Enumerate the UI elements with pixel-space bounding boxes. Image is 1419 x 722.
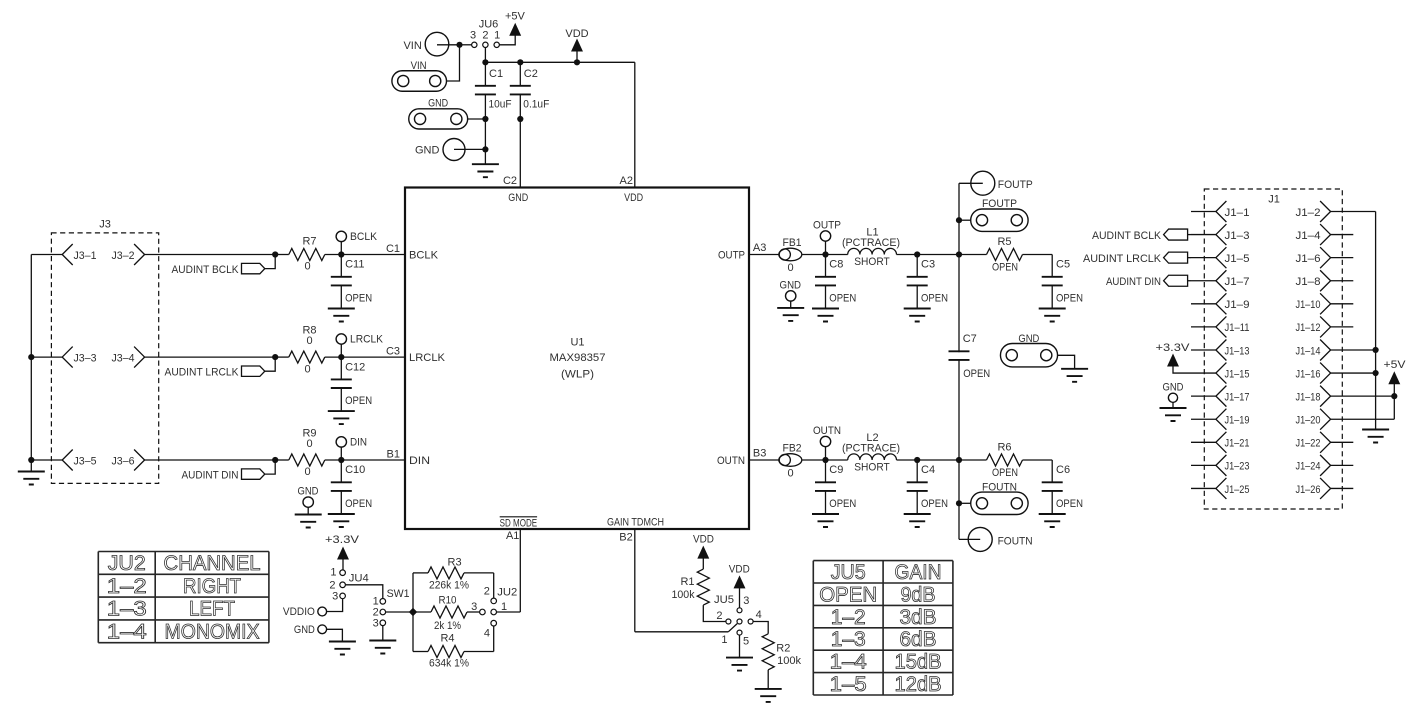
svg-text:5: 5 [743,636,749,648]
svg-text:FB1: FB1 [783,237,802,249]
svg-text:A3: A3 [753,242,766,254]
wire to pin C1 [341,243,405,255]
node [272,457,278,463]
capacitor C9 [812,460,856,527]
svg-text:J1–22: J1–22 [1296,438,1321,450]
svg-text:A1: A1 [506,530,519,542]
resistor R6 [959,441,1052,479]
node [338,354,344,360]
svg-text:2: 2 [484,585,490,597]
svg-text:VDDIO: VDDIO [283,606,315,618]
capacitor C12 [328,357,372,424]
svg-text:LRCLK: LRCLK [409,352,446,364]
test point FOUTP [959,171,1033,195]
svg-text:J1–3: J1–3 [1225,230,1250,242]
svg-text:BCLK: BCLK [350,231,378,243]
wire to pin C2 [503,119,520,188]
ground [369,641,396,654]
svg-text:AUDINT LRCLK: AUDINT LRCLK [165,367,240,379]
svg-text:J1–9: J1–9 [1225,299,1250,311]
node [956,457,962,463]
resistor R10 [413,594,480,632]
svg-text:2k 1%: 2k 1% [434,620,461,632]
pin J3-5 [62,450,96,471]
node VIN junction [456,42,462,48]
svg-text:C11: C11 [345,259,364,271]
node [482,119,488,164]
svg-text:C4: C4 [921,464,935,476]
wire [802,459,826,461]
wire [1375,212,1377,430]
svg-text:JU2: JU2 [108,552,146,575]
test point LRCLK [336,334,384,358]
svg-text:GND: GND [780,280,802,292]
inductor L1 [826,227,918,269]
power +3.3V [325,534,360,570]
capacitor C3 [904,255,948,322]
svg-text:1–3: 1–3 [831,628,866,651]
pin J1-24 [1296,455,1354,476]
IC U1 MAX98357 [405,188,749,530]
svg-text:AUDINT DIN: AUDINT DIN [182,470,239,482]
node [272,251,278,257]
svg-text:2: 2 [482,30,488,42]
wire [917,254,959,256]
svg-text:OPEN: OPEN [345,498,372,510]
pad VIN [392,60,447,91]
test point OUTN [813,425,841,460]
connector J3 [51,219,158,484]
ground [1061,369,1088,382]
svg-text:VDD: VDD [693,533,714,545]
node VDD rail [482,59,635,65]
svg-text:LRCLK: LRCLK [350,334,384,346]
capacitor C5 [1039,255,1083,322]
svg-text:3: 3 [332,591,338,603]
inductor L2 [826,432,918,474]
node [914,457,920,463]
svg-text:FOUTP: FOUTP [982,198,1017,210]
wire to pin B1 [341,449,405,461]
test point BCLK [336,231,378,255]
wire [460,44,472,46]
svg-text:GND: GND [1163,381,1184,393]
svg-text:GAIN: GAIN [895,561,942,584]
net flag AUDINT DIN [1106,275,1191,288]
pin J1-13 [1191,339,1250,360]
svg-text:J3–1: J3–1 [74,250,97,262]
svg-text:OPEN: OPEN [1056,292,1083,304]
wire to pin C3 [341,346,405,358]
svg-text:OPEN: OPEN [992,261,1018,273]
test point VDDIO [283,599,343,618]
svg-text:3: 3 [743,595,749,607]
svg-text:OPEN: OPEN [921,292,948,304]
svg-text:OUTP: OUTP [813,219,841,231]
svg-text:MONOMIX: MONOMIX [165,621,260,644]
wire [917,459,959,461]
node [1391,393,1397,399]
connector J1 [1204,189,1342,509]
power +3.3V [1156,342,1192,373]
svg-text:A2: A2 [620,175,633,187]
svg-text:J1–4: J1–4 [1296,230,1321,242]
svg-text:SHORT: SHORT [854,256,890,268]
svg-text:J1–1: J1–1 [1225,207,1250,219]
svg-text:GND: GND [298,486,319,498]
wire [468,118,486,120]
pin J1-20 [1296,409,1395,430]
wire [145,459,276,461]
pin J1-10 [1296,293,1354,314]
svg-text:J1–5: J1–5 [1225,253,1250,265]
svg-text:OPEN: OPEN [345,292,372,304]
svg-text:J1–7: J1–7 [1225,276,1250,288]
ground [329,642,356,655]
pin J1-26 [1296,478,1354,499]
pin J1-8 [1296,270,1354,291]
svg-text:10uF: 10uF [489,98,512,110]
node [822,251,828,257]
svg-text:J1–24: J1–24 [1296,461,1321,473]
node [338,251,344,257]
svg-text:J3: J3 [99,219,111,231]
net flag AUDINT BCLK [172,255,276,277]
net flag AUDINT DIN [182,460,276,482]
svg-text:J1–15: J1–15 [1225,368,1250,380]
svg-text:J1: J1 [1268,193,1280,205]
capacitor C6 [1039,460,1083,527]
ferrite bead FB1 [779,237,802,274]
wire to pin A1 [497,529,521,612]
svg-text:12dB: 12dB [895,673,942,696]
wire [802,254,826,256]
resistor R3 [413,556,494,591]
capacitor C10 [328,460,372,527]
svg-text:GND: GND [428,98,448,110]
wire [145,254,276,256]
pin J1-25 [1191,478,1250,499]
svg-text:DIN: DIN [409,455,430,467]
svg-text:GND: GND [1018,333,1039,345]
svg-text:U1: U1 [570,337,584,349]
svg-text:C8: C8 [829,259,843,271]
svg-text:AUDINT DIN: AUDINT DIN [1106,276,1161,288]
capacitor C4 [904,460,948,527]
pin J3-1 [62,244,96,265]
test point VIN [403,32,459,56]
svg-text:+5V: +5V [505,11,526,23]
jumper JU6 [470,19,500,48]
svg-text:0: 0 [304,466,310,478]
net flag AUDINT LRCLK [1083,252,1191,265]
test point GND [777,280,804,321]
svg-text:FOUTP: FOUTP [998,179,1033,191]
svg-text:J1–21: J1–21 [1225,438,1250,450]
capacitor C8 [812,255,856,322]
node [1373,347,1379,376]
pin J1-11 [1191,316,1250,337]
ground [755,689,782,702]
svg-text:LEFT: LEFT [189,598,235,621]
pin J1-4 [1296,224,1354,245]
svg-text:J1–19: J1–19 [1225,415,1250,427]
pad FOUTN [959,481,1028,514]
resistor R8 [275,325,341,376]
svg-text:RIGHT: RIGHT [183,575,241,598]
svg-text:J1–12: J1–12 [1296,322,1321,334]
node [409,608,417,616]
svg-text:100k: 100k [777,655,801,667]
svg-text:BCLK: BCLK [409,250,439,262]
pin J1-19 [1191,409,1250,430]
svg-text:C1: C1 [386,243,400,255]
svg-text:J1–8: J1–8 [1296,276,1321,288]
svg-text:B3: B3 [753,448,766,460]
net flag AUDINT LRCLK [165,357,276,379]
wire rail [958,183,960,539]
svg-text:0: 0 [787,468,793,480]
svg-text:634k 1%: 634k 1% [429,658,469,670]
svg-text:SD MODE: SD MODE [500,518,538,530]
svg-text:OPEN: OPEN [963,368,990,380]
wire rail [412,573,414,652]
svg-text:J1–14: J1–14 [1296,345,1321,357]
pad GND [1000,333,1074,369]
svg-text:SHORT: SHORT [854,462,890,474]
svg-text:C1: C1 [489,68,503,80]
resistor R9 [275,428,341,479]
svg-text:(WLP): (WLP) [561,369,594,381]
svg-text:(PCTRACE): (PCTRACE) [842,442,900,454]
resistor R2 [753,622,801,689]
svg-text:+3.3V: +3.3V [325,534,360,546]
svg-text:0.1uF: 0.1uF [523,98,549,110]
svg-text:OPEN: OPEN [829,498,856,510]
svg-text:R5: R5 [997,236,1011,248]
capacitor C2 [510,62,550,119]
svg-text:AUDINT LRCLK: AUDINT LRCLK [1083,253,1162,265]
wire from pin B2 [619,529,737,632]
svg-text:4: 4 [484,627,490,639]
svg-text:JU4: JU4 [349,573,369,585]
pin J1-5 [1191,247,1250,268]
svg-text:R10: R10 [439,594,457,606]
svg-text:6dB: 6dB [900,628,937,651]
wire [382,626,384,641]
ground [1362,430,1389,443]
pin J1-7 [1191,270,1250,291]
svg-text:(PCTRACE): (PCTRACE) [842,237,900,249]
pin J1-23 [1191,455,1250,476]
svg-text:J1–11: J1–11 [1225,322,1250,334]
svg-text:C10: C10 [345,464,365,476]
net flag AUDINT BCLK [1092,229,1191,242]
jumper JU5 [714,594,762,648]
node [482,116,523,122]
svg-text:0: 0 [306,438,312,450]
svg-text:JU5: JU5 [714,594,734,606]
pin J1-9 [1191,293,1250,314]
svg-text:100k: 100k [672,589,695,601]
resistor R5 [959,236,1052,273]
switch SW1 [373,588,410,629]
svg-text:+3.3V: +3.3V [1156,342,1191,354]
pin J1-17 [1191,386,1250,407]
power VDD [729,563,750,608]
svg-text:J1–6: J1–6 [1296,253,1321,265]
test point GND [415,139,485,161]
node [956,251,962,257]
pad FOUTP [959,198,1028,231]
svg-text:AUDINT BCLK: AUDINT BCLK [1092,230,1162,242]
svg-text:R2: R2 [776,643,790,655]
svg-text:+5V: +5V [1384,359,1407,371]
wire [484,48,486,63]
svg-text:AUDINT BCLK: AUDINT BCLK [172,264,240,276]
pin J3-3 [62,347,96,368]
test point GND [1160,381,1187,421]
pin J3-2 [112,244,145,265]
pin J1-18 [1296,386,1395,407]
svg-text:9dB: 9dB [901,583,936,606]
svg-text:1: 1 [721,634,727,646]
test point FOUTN [959,527,1033,551]
pin J1-2 [1296,201,1376,222]
svg-text:1: 1 [494,30,500,42]
ground [472,164,499,177]
jumper JU4 [329,567,368,603]
pin J1-16 [1296,363,1376,384]
ferrite bead FB2 [779,442,802,479]
svg-text:GND: GND [508,192,528,204]
svg-text:GAIN TDMCH: GAIN TDMCH [607,516,664,528]
svg-text:OPEN: OPEN [1056,498,1083,510]
svg-text:0: 0 [787,262,793,274]
svg-text:1–5: 1–5 [830,673,867,696]
svg-text:4: 4 [756,609,762,621]
svg-text:J1–10: J1–10 [1296,299,1321,311]
pin J1-3 [1191,224,1250,245]
ground [18,472,45,485]
svg-text:GND: GND [415,144,440,156]
svg-text:OPEN: OPEN [819,583,877,606]
pin J1-15 [1191,363,1250,384]
test point GND [295,486,322,528]
table JU2 CHANNEL [98,552,269,644]
pin J1-6 [1296,247,1354,268]
svg-text:J3–2: J3–2 [112,250,135,262]
svg-text:OPEN: OPEN [992,467,1018,479]
pin J1-14 [1296,339,1376,360]
capacitor C1 [475,62,512,119]
svg-text:J1–16: J1–16 [1296,368,1321,380]
capacitor C7 [949,333,991,380]
wire [145,356,276,358]
pad GND [409,98,468,130]
table JU5 GAIN [813,561,953,696]
svg-text:VDD: VDD [729,563,750,575]
svg-text:1–4: 1–4 [107,621,147,644]
svg-text:1: 1 [330,567,336,579]
svg-text:C6: C6 [1056,464,1070,476]
jumper JU2 [471,573,517,652]
test point GND [294,624,343,642]
svg-text:1–3: 1–3 [107,598,147,621]
wire [739,635,741,657]
node [272,354,278,360]
svg-text:C12: C12 [345,361,365,373]
svg-text:1–2: 1–2 [107,575,147,598]
wire from pin A3 [749,242,779,255]
node [956,500,962,506]
test point DIN [336,436,367,460]
svg-text:C2: C2 [524,68,538,80]
svg-text:15dB: 15dB [895,651,942,674]
svg-text:J1–20: J1–20 [1296,415,1321,427]
svg-text:VDD: VDD [624,192,643,204]
svg-text:VDD: VDD [565,28,588,40]
wire [346,585,383,599]
wire [1393,396,1395,419]
svg-text:B2: B2 [619,532,632,544]
svg-text:B1: B1 [387,449,400,461]
resistor R4 [413,632,494,669]
svg-text:3dB: 3dB [900,606,937,629]
svg-text:SW1: SW1 [387,588,410,600]
svg-text:OPEN: OPEN [921,498,948,510]
power +5V [499,11,525,45]
svg-text:C3: C3 [921,259,935,271]
test point OUTP [813,219,841,254]
svg-text:0: 0 [306,335,312,347]
ground [726,658,753,671]
svg-text:3: 3 [470,30,476,42]
pin J1-12 [1296,316,1354,337]
svg-text:1–2: 1–2 [831,606,866,629]
svg-text:0: 0 [304,261,310,273]
svg-text:MAX98357: MAX98357 [550,352,606,364]
svg-text:OPEN: OPEN [829,292,856,304]
svg-text:FOUTN: FOUTN [982,481,1017,493]
svg-text:C9: C9 [829,464,843,476]
node [338,457,344,463]
svg-text:2: 2 [716,610,722,622]
wire [386,611,410,613]
svg-text:JU5: JU5 [831,561,866,584]
svg-text:C7: C7 [963,333,977,345]
svg-text:J3–5: J3–5 [74,455,97,467]
svg-text:OPEN: OPEN [345,395,372,407]
svg-text:J1–2: J1–2 [1296,207,1321,219]
svg-text:J1–17: J1–17 [1225,391,1250,403]
wire to pin A2 [620,62,635,187]
svg-text:3: 3 [471,601,477,613]
svg-text:J1–25: J1–25 [1225,484,1250,496]
pin J1-21 [1191,432,1250,453]
svg-text:C2: C2 [503,175,517,187]
wire [447,45,460,81]
svg-text:J3–6: J3–6 [112,455,135,467]
svg-text:JU2: JU2 [497,586,517,598]
svg-text:226k 1%: 226k 1% [429,579,469,591]
pin J3-6 [112,450,145,471]
svg-text:J1–18: J1–18 [1296,391,1321,403]
svg-text:0: 0 [304,363,310,375]
svg-text:R7: R7 [302,235,316,247]
node [28,354,34,463]
power VDD [693,533,714,569]
